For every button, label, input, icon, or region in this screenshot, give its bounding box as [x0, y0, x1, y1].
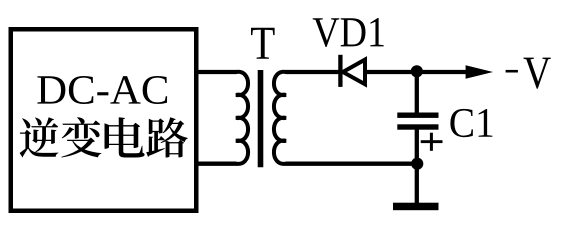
wire junction to ground	[415, 163, 419, 204]
capacitor C1 bottom plate	[397, 124, 438, 129]
ground	[393, 203, 439, 211]
label C1	[450, 109, 492, 137]
wire secondary bottom	[286, 162, 418, 166]
wire secondary top to diode	[286, 70, 340, 74]
junction node bottom	[411, 158, 423, 170]
diode VD1 triangle	[343, 60, 365, 85]
label 逆变电路 (inverter circuit)	[20, 117, 188, 157]
wire node to capacitor	[415, 71, 419, 114]
capacitor C1 polarity +	[421, 133, 443, 151]
transformer T secondary winding	[274, 72, 286, 164]
wire primary bottom	[196, 162, 237, 166]
label DC-AC	[37, 76, 167, 104]
diode VD1 cathode bar	[338, 55, 342, 87]
output arrow	[466, 65, 493, 78]
label VD1	[313, 18, 384, 47]
label T	[251, 28, 275, 59]
transformer T core	[258, 70, 264, 167]
label -V (V)	[524, 58, 551, 89]
label -V minus sign	[506, 70, 518, 73]
wire primary top	[196, 70, 237, 74]
DC-AC inverter block U1	[11, 29, 197, 211]
wire diode to output node	[366, 70, 470, 74]
transformer T primary winding	[236, 72, 248, 164]
wire capacitor to bottom junction	[415, 130, 419, 165]
capacitor C1 top plate	[397, 113, 438, 118]
junction node top	[411, 65, 423, 77]
